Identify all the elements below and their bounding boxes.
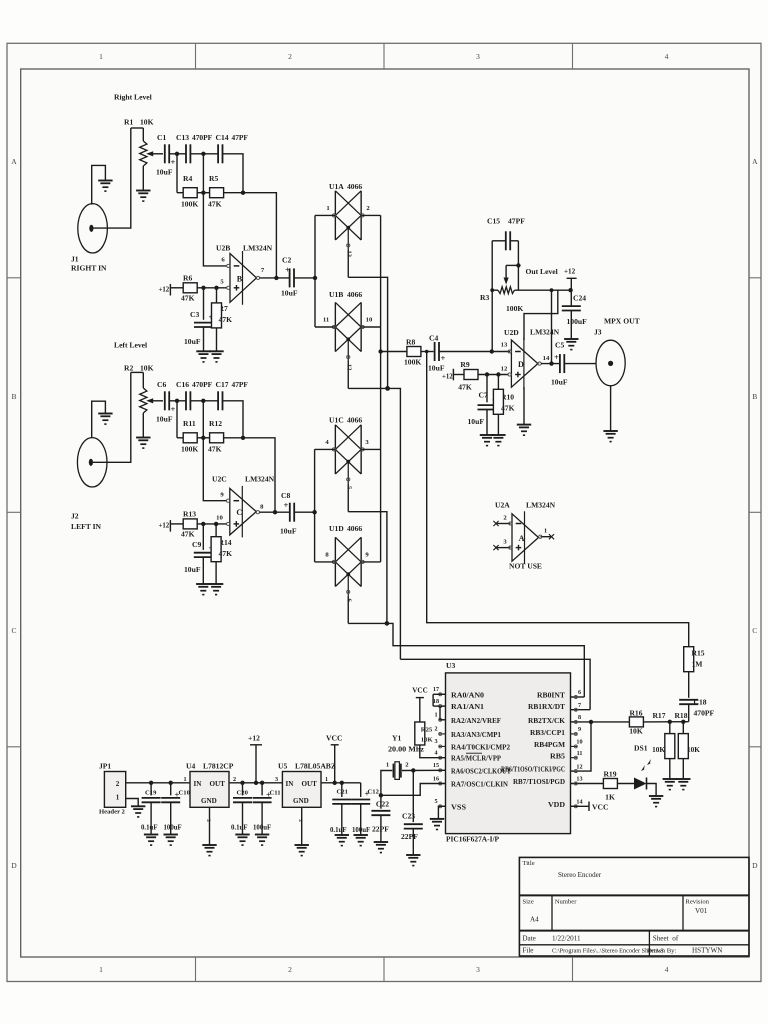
svg-text:Stereo Encoder: Stereo Encoder bbox=[558, 871, 602, 879]
wire pin1 bbox=[315, 214, 335, 216]
ground under U4 bbox=[202, 845, 216, 856]
capacitor C10 100uF bbox=[170, 783, 172, 796]
svg-text:47PF: 47PF bbox=[232, 380, 249, 389]
svg-text:100K: 100K bbox=[404, 358, 421, 367]
svg-text:R19: R19 bbox=[603, 770, 616, 779]
capacitor C12 100uF bbox=[360, 783, 362, 797]
control wire U1A down bbox=[348, 277, 387, 388]
ground under VSS bbox=[430, 819, 444, 830]
svg-text:D: D bbox=[752, 861, 758, 870]
wire C8 to switch rail bbox=[294, 511, 314, 513]
svg-text:U1C: U1C bbox=[329, 416, 344, 425]
capacitor C23 22PF bbox=[412, 770, 414, 822]
connector J2 bbox=[77, 438, 107, 487]
wire C6 to C16 bbox=[169, 400, 186, 402]
svg-text:1: 1 bbox=[183, 777, 186, 783]
svg-text:C9: C9 bbox=[192, 540, 201, 549]
svg-text:13: 13 bbox=[576, 777, 582, 783]
svg-text:C: C bbox=[752, 626, 757, 635]
ground under R14 bbox=[209, 584, 223, 595]
ground under C23 bbox=[406, 855, 420, 866]
svg-text:4066: 4066 bbox=[347, 416, 362, 425]
wire PIC RB2 to R16 bbox=[571, 721, 630, 723]
svg-text:1M: 1M bbox=[692, 660, 703, 669]
svg-text:470PF: 470PF bbox=[192, 133, 213, 142]
svg-text:NOT USE: NOT USE bbox=[509, 562, 542, 571]
svg-text:IN: IN bbox=[194, 780, 203, 788]
control pin 5 of U1C bbox=[347, 483, 349, 511]
svg-text:10uF: 10uF bbox=[184, 337, 201, 346]
svg-text:GND: GND bbox=[201, 797, 217, 805]
node verticals to R4 R5 bbox=[176, 154, 178, 193]
svg-text:1: 1 bbox=[386, 762, 389, 769]
wire pin11 bbox=[315, 326, 335, 328]
capacitor C7 10uF bbox=[486, 375, 488, 403]
svg-text:20.00 Mhz: 20.00 Mhz bbox=[388, 746, 424, 754]
svg-text:A: A bbox=[752, 157, 758, 166]
wire U2C output to C8 bbox=[259, 511, 290, 513]
svg-text:10uF: 10uF bbox=[468, 417, 485, 426]
svg-text:C24: C24 bbox=[573, 294, 586, 303]
svg-text:C5: C5 bbox=[555, 341, 564, 350]
svg-text:3: 3 bbox=[476, 52, 480, 61]
ground stub at J1 bbox=[92, 165, 106, 204]
svg-text:C6: C6 bbox=[157, 380, 166, 389]
resistor R10 47K bbox=[497, 375, 499, 390]
svg-text:Right Level: Right Level bbox=[114, 93, 152, 102]
svg-text:A4: A4 bbox=[530, 916, 539, 924]
ground symbol J1 bbox=[98, 181, 112, 192]
svg-text:47K: 47K bbox=[181, 530, 195, 539]
svg-text:12: 12 bbox=[576, 764, 582, 770]
svg-text:6: 6 bbox=[578, 690, 581, 696]
svg-text:10uF: 10uF bbox=[281, 289, 298, 298]
svg-text:C13: C13 bbox=[176, 133, 189, 142]
svg-text:C: C bbox=[236, 508, 242, 517]
wire U2D output to C5 bbox=[541, 363, 559, 365]
svg-text:RB4PGM: RB4PGM bbox=[534, 742, 566, 749]
svg-text:Left Level: Left Level bbox=[114, 341, 147, 350]
svg-text:LEFT IN: LEFT IN bbox=[71, 522, 102, 531]
svg-text:R4: R4 bbox=[183, 174, 192, 183]
svg-text:0.1uF: 0.1uF bbox=[231, 825, 248, 832]
svg-text:1: 1 bbox=[434, 713, 437, 719]
wire crystal pin1 to PIC OSC1 bbox=[381, 771, 446, 796]
ground under C20 bbox=[235, 835, 249, 846]
svg-text:12: 12 bbox=[345, 364, 352, 371]
svg-text:VCC: VCC bbox=[412, 687, 427, 695]
svg-text:C: C bbox=[11, 626, 16, 635]
svg-text:+: + bbox=[171, 404, 176, 414]
svg-text:2: 2 bbox=[288, 52, 292, 61]
feedback wire output to R3 row bbox=[551, 290, 553, 363]
svg-text:VDD: VDD bbox=[548, 802, 565, 809]
svg-text:B: B bbox=[237, 274, 243, 283]
svg-text:RB2TX/CK: RB2TX/CK bbox=[528, 718, 566, 725]
svg-text:17: 17 bbox=[433, 687, 439, 693]
svg-text:LM324N: LM324N bbox=[245, 475, 275, 484]
svg-text:RIGHT IN: RIGHT IN bbox=[71, 264, 107, 273]
svg-text:4: 4 bbox=[434, 751, 437, 757]
svg-text:10uF: 10uF bbox=[156, 168, 173, 177]
node verticals to R11 R12 bbox=[176, 401, 178, 438]
svg-text:+12: +12 bbox=[442, 373, 453, 380]
wire pin8 bbox=[315, 561, 336, 563]
svg-text:100K: 100K bbox=[181, 200, 198, 209]
svg-text:C7: C7 bbox=[479, 391, 488, 400]
svg-text:47K: 47K bbox=[208, 445, 222, 454]
ground under R18 bbox=[676, 779, 690, 790]
control net route to PIC RB1 bbox=[400, 659, 590, 709]
U2D power rail to ground bbox=[523, 387, 525, 424]
svg-text:4066: 4066 bbox=[347, 524, 362, 533]
svg-text:13: 13 bbox=[345, 251, 352, 258]
ground under R2 bbox=[136, 438, 150, 449]
svg-text:C1: C1 bbox=[157, 133, 166, 142]
ground under R7 bbox=[209, 351, 223, 362]
U4 GND pin to ground bbox=[209, 807, 211, 845]
svg-text:10uF: 10uF bbox=[428, 364, 445, 373]
svg-text:R3: R3 bbox=[480, 293, 489, 302]
svg-text:10uF: 10uF bbox=[156, 415, 173, 424]
capacitor C11 100uF bbox=[261, 783, 263, 796]
wire pin9 to rail bbox=[361, 561, 380, 563]
capacitor C3 10uF bbox=[203, 288, 205, 320]
svg-text:+: + bbox=[284, 500, 289, 510]
ground under J3 bbox=[603, 431, 617, 442]
svg-text:J1: J1 bbox=[71, 255, 79, 264]
wire R25 to MCLR pin4 bbox=[420, 745, 446, 758]
svg-text:A: A bbox=[11, 157, 17, 166]
capacitor C18 470PF bbox=[679, 700, 698, 704]
svg-text:11: 11 bbox=[323, 317, 329, 324]
svg-text:OUT: OUT bbox=[302, 780, 318, 788]
svg-text:R2: R2 bbox=[124, 364, 133, 373]
svg-text:47K: 47K bbox=[208, 200, 222, 209]
svg-text:Size: Size bbox=[522, 898, 533, 905]
svg-text:9: 9 bbox=[578, 727, 581, 733]
svg-text:100K: 100K bbox=[506, 304, 523, 313]
ground symbol J2 bbox=[98, 414, 112, 425]
svg-text:14: 14 bbox=[576, 800, 582, 806]
svg-text:12: 12 bbox=[501, 366, 508, 373]
wire inverting node to pin 6 bbox=[203, 193, 227, 266]
svg-text:L78L05ABZ: L78L05ABZ bbox=[295, 762, 336, 771]
svg-text:GND: GND bbox=[293, 797, 309, 805]
PIC right pins bbox=[501, 690, 583, 809]
svg-text:10K: 10K bbox=[140, 364, 154, 373]
svg-text:RB7/T1OSI/PGD: RB7/T1OSI/PGD bbox=[513, 779, 565, 786]
svg-text:470PF: 470PF bbox=[192, 380, 213, 389]
wire PIC RB7 to R19 bbox=[571, 783, 604, 785]
VSS ground wire bbox=[438, 806, 445, 819]
rail to U1A pin1 and U1B pin11 bbox=[314, 215, 316, 327]
svg-text:RB5: RB5 bbox=[550, 754, 566, 761]
switch output rail bbox=[380, 215, 382, 562]
control wire U1C down bbox=[348, 512, 387, 624]
wire R16 to C18 node bbox=[643, 721, 688, 723]
svg-text:D: D bbox=[518, 360, 524, 369]
svg-text:10: 10 bbox=[576, 740, 582, 746]
svg-text:10uF: 10uF bbox=[551, 378, 568, 387]
svg-text:RA1/AN1: RA1/AN1 bbox=[451, 704, 485, 711]
svg-text:PIC16F627A-I/P: PIC16F627A-I/P bbox=[446, 835, 500, 844]
svg-text:C12: C12 bbox=[368, 789, 380, 796]
ground at JP1 bbox=[131, 806, 145, 817]
svg-text:OUT: OUT bbox=[210, 780, 226, 788]
ground under C9 bbox=[196, 584, 210, 595]
JP1 pin1 to ground bbox=[126, 799, 139, 807]
svg-text:R8: R8 bbox=[406, 338, 415, 347]
control pin 13 of U1A bbox=[347, 249, 349, 277]
svg-text:47K: 47K bbox=[181, 294, 195, 303]
svg-text:47K: 47K bbox=[219, 315, 233, 324]
wire C13 to C14 bbox=[190, 153, 218, 155]
svg-text:IN: IN bbox=[286, 780, 295, 788]
svg-text:JP1: JP1 bbox=[99, 762, 111, 771]
svg-text:VCC: VCC bbox=[326, 734, 342, 743]
VDD VCC tie bbox=[571, 805, 590, 807]
U2D V+ wire from +12 row bbox=[524, 290, 558, 340]
svg-text:10K: 10K bbox=[687, 746, 700, 754]
svg-text:8: 8 bbox=[578, 715, 581, 721]
svg-text:R12: R12 bbox=[209, 419, 222, 428]
svg-text:R11: R11 bbox=[183, 419, 196, 428]
no-connect stubs U2A bbox=[497, 523, 511, 525]
svg-text:R9: R9 bbox=[460, 360, 469, 369]
ground stub at J2 bbox=[92, 401, 106, 438]
control pin 12 of U1B bbox=[347, 361, 349, 388]
svg-text:HSTYWN: HSTYWN bbox=[692, 947, 722, 955]
resistor R7 47K bbox=[216, 288, 218, 303]
svg-text:LM324N: LM324N bbox=[530, 328, 560, 337]
wire R13 to pin 10 bbox=[197, 523, 227, 525]
PIC left pins bbox=[433, 687, 511, 811]
svg-text:C21: C21 bbox=[337, 789, 348, 796]
PIC pin stubs bbox=[433, 693, 445, 695]
svg-text:10uF: 10uF bbox=[280, 527, 297, 536]
pilot tap wire down to R15 bbox=[427, 352, 689, 648]
ground under U5 bbox=[295, 845, 309, 856]
svg-text:2: 2 bbox=[434, 727, 437, 733]
svg-text:+: + bbox=[441, 353, 446, 363]
ground under C3 bbox=[196, 351, 210, 362]
svg-text:C14: C14 bbox=[216, 133, 229, 142]
wiper wire R1 to C1 bbox=[146, 151, 153, 156]
svg-text:3: 3 bbox=[275, 777, 278, 783]
supply rail U4 to U5 bbox=[229, 782, 282, 784]
capacitor C21 0.1uF bbox=[341, 783, 343, 797]
svg-text:7: 7 bbox=[578, 703, 581, 709]
svg-text:C16: C16 bbox=[176, 380, 189, 389]
feedback wire to U2B output bbox=[243, 193, 276, 278]
svg-text:3: 3 bbox=[205, 819, 211, 822]
svg-text:U2B: U2B bbox=[216, 244, 230, 253]
svg-text:LM324N: LM324N bbox=[526, 501, 556, 510]
svg-text:Y1: Y1 bbox=[392, 734, 401, 743]
svg-text:47K: 47K bbox=[219, 549, 233, 558]
svg-text:1: 1 bbox=[326, 205, 329, 212]
svg-text:RA4/T0CKI/CMP2: RA4/T0CKI/CMP2 bbox=[451, 744, 511, 751]
svg-text:+: + bbox=[554, 352, 559, 362]
ground under U2D bbox=[517, 425, 531, 436]
svg-text:RA0/AN0: RA0/AN0 bbox=[451, 692, 485, 699]
svg-text:4066: 4066 bbox=[347, 182, 362, 191]
svg-text:C2: C2 bbox=[282, 256, 291, 265]
svg-text:11: 11 bbox=[577, 751, 583, 757]
+12 supply to R6 bbox=[159, 284, 171, 296]
wire pin2 to rail bbox=[361, 214, 380, 216]
capacitor C22 22PF bbox=[380, 795, 382, 808]
svg-text:Sheet: Sheet bbox=[653, 935, 669, 943]
svg-text:100uF: 100uF bbox=[164, 825, 182, 832]
svg-text:0.1uF: 0.1uF bbox=[330, 827, 347, 834]
wire C14 to corner bbox=[223, 154, 244, 193]
svg-text:1: 1 bbox=[544, 528, 547, 535]
svg-text:B: B bbox=[11, 392, 16, 401]
ground under C10 bbox=[164, 835, 178, 846]
wire C1 to C13 bbox=[169, 153, 186, 155]
svg-text:Title: Title bbox=[522, 860, 534, 867]
wire RB0 stub bbox=[571, 696, 585, 698]
wire C17 to corner bbox=[223, 401, 244, 438]
svg-text:+12: +12 bbox=[248, 734, 260, 743]
svg-text:100uF: 100uF bbox=[567, 317, 588, 326]
svg-text:C10: C10 bbox=[179, 790, 191, 797]
svg-text:4066: 4066 bbox=[347, 290, 362, 299]
svg-text:VCC: VCC bbox=[592, 803, 608, 812]
svg-text:+12: +12 bbox=[159, 287, 170, 294]
ground under C11 bbox=[255, 835, 269, 846]
ground under DS1 bbox=[649, 796, 663, 807]
rail to U1C pin4 and U1D pin8 bbox=[314, 449, 316, 562]
capacitor C20 0.1uF bbox=[242, 783, 244, 796]
svg-text:47PF: 47PF bbox=[232, 133, 249, 142]
svg-text:R15: R15 bbox=[692, 649, 705, 658]
svg-text:+: + bbox=[171, 157, 176, 167]
svg-text:2: 2 bbox=[116, 780, 120, 788]
svg-text:1: 1 bbox=[116, 794, 120, 802]
svg-text:10K: 10K bbox=[140, 118, 154, 127]
supply rail U5 to VCC bbox=[321, 782, 361, 784]
svg-text:Header 2: Header 2 bbox=[99, 809, 126, 816]
svg-text:A: A bbox=[519, 534, 525, 543]
svg-text:47K: 47K bbox=[458, 383, 472, 392]
svg-text:3: 3 bbox=[476, 965, 480, 974]
wire C5 to J3 bbox=[564, 363, 596, 365]
wire R6 to pin 5 bbox=[197, 287, 227, 289]
resistor R25 10K pullup bbox=[415, 722, 425, 745]
svg-text:B: B bbox=[752, 392, 757, 401]
svg-text:RB0INT: RB0INT bbox=[537, 692, 565, 699]
svg-text:RB6/T1OSO/T1CKI/PGC: RB6/T1OSO/T1CKI/PGC bbox=[501, 767, 565, 774]
ground under R10 bbox=[491, 435, 505, 446]
control wire U1B right and down bbox=[348, 388, 400, 659]
svg-text:U3: U3 bbox=[446, 661, 455, 670]
svg-text:13: 13 bbox=[501, 342, 508, 349]
svg-text:C3: C3 bbox=[190, 310, 199, 319]
svg-text:C15: C15 bbox=[487, 217, 500, 226]
svg-text:16: 16 bbox=[433, 776, 439, 782]
wire pin4 bbox=[315, 448, 336, 450]
svg-text:U1D: U1D bbox=[329, 524, 344, 533]
svg-text:Revision: Revision bbox=[685, 898, 709, 905]
svg-text:C11: C11 bbox=[270, 790, 281, 797]
ground under C7 bbox=[480, 435, 494, 446]
svg-text:Drawn By:: Drawn By: bbox=[647, 948, 676, 955]
svg-text:10: 10 bbox=[366, 317, 373, 324]
svg-text:18: 18 bbox=[433, 699, 439, 705]
svg-text:R16: R16 bbox=[629, 709, 642, 718]
wire inverting node to pin 9 bbox=[203, 438, 227, 501]
svg-text:L7812CP: L7812CP bbox=[203, 762, 234, 771]
control wire U1D join and route to PIC RB0 bbox=[348, 623, 584, 697]
svg-text:10: 10 bbox=[216, 515, 223, 522]
svg-text:10uF: 10uF bbox=[184, 565, 201, 574]
wire rail to R8 bbox=[381, 351, 408, 353]
capacitor C9 10uF bbox=[202, 524, 204, 550]
control pin 6 of U1D bbox=[347, 596, 349, 624]
svg-text:100K: 100K bbox=[181, 445, 198, 454]
svg-text:Number: Number bbox=[555, 898, 578, 905]
+12 supply to R9 bbox=[442, 369, 453, 381]
wiper wire R2 to C6 bbox=[146, 398, 153, 403]
svg-text:File: File bbox=[522, 947, 533, 955]
svg-text:C22: C22 bbox=[376, 800, 389, 809]
svg-text:J2: J2 bbox=[71, 512, 79, 521]
ground under C22 bbox=[374, 842, 388, 853]
wire pin10 to rail bbox=[361, 326, 380, 328]
title block frame bbox=[519, 857, 749, 956]
svg-text:R6: R6 bbox=[183, 274, 192, 283]
ground under R1 bbox=[136, 191, 150, 202]
wire C2 to switch rail bbox=[294, 277, 315, 279]
wire RB1 stub bbox=[571, 709, 591, 711]
svg-text:10K: 10K bbox=[652, 746, 665, 754]
wire R9 to pin 12 bbox=[478, 374, 509, 376]
wire C16 to C17 bbox=[190, 400, 218, 402]
svg-text:J3: J3 bbox=[594, 328, 602, 337]
ground under C19 bbox=[144, 835, 158, 846]
svg-text:10K: 10K bbox=[421, 737, 434, 744]
svg-text:14: 14 bbox=[543, 355, 550, 362]
svg-text:3: 3 bbox=[434, 739, 437, 745]
svg-text:1: 1 bbox=[99, 965, 103, 974]
wire U2B output to C2 bbox=[260, 277, 290, 279]
svg-text:RA3/AN3/CMP1: RA3/AN3/CMP1 bbox=[451, 732, 502, 739]
svg-text:U2D: U2D bbox=[504, 328, 519, 337]
+12 supply to R13 bbox=[159, 520, 171, 532]
svg-text:C8: C8 bbox=[281, 491, 290, 500]
svg-text:VSS: VSS bbox=[451, 804, 466, 811]
svg-text:10K: 10K bbox=[629, 727, 643, 736]
title block text bbox=[522, 860, 722, 954]
svg-text:U1A: U1A bbox=[329, 182, 344, 191]
svg-text:DS1: DS1 bbox=[634, 744, 648, 753]
svg-text:Date: Date bbox=[522, 935, 535, 943]
svg-text:1/22/2011: 1/22/2011 bbox=[552, 935, 581, 943]
svg-text:RA7/OSC1/CLKIN: RA7/OSC1/CLKIN bbox=[451, 782, 508, 789]
svg-text:470PF: 470PF bbox=[694, 709, 715, 718]
svg-text:LM324N: LM324N bbox=[243, 244, 273, 253]
svg-text:RB3/CCP1: RB3/CCP1 bbox=[530, 730, 566, 737]
svg-text:RB1RX/DT: RB1RX/DT bbox=[528, 704, 565, 711]
svg-text:D: D bbox=[11, 861, 17, 870]
resistor R15 1M bbox=[684, 647, 694, 672]
wire pin3 to rail bbox=[361, 448, 380, 450]
svg-text:RA5/MCLR/VPP: RA5/MCLR/VPP bbox=[451, 756, 501, 763]
wire J3 to ground bbox=[610, 386, 612, 431]
